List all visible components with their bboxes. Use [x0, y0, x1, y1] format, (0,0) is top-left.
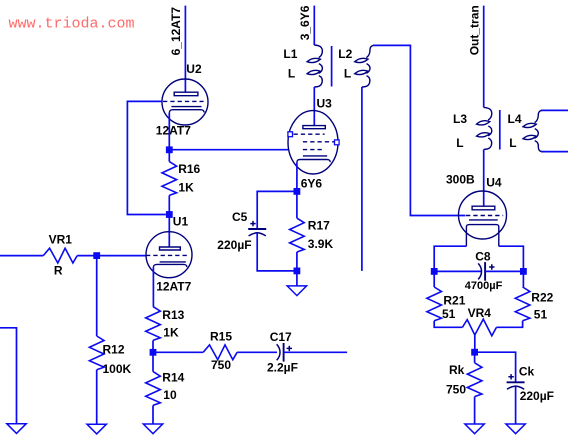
- wire Ck to ground: [515, 386, 517, 424]
- ground (below R14): [143, 424, 162, 434]
- svg-text:C5: C5: [232, 210, 248, 224]
- tube U3 control grid (dashed): [303, 149, 325, 151]
- wire node B to U1 plate: [168, 215, 170, 248]
- svg-text:L4: L4: [508, 112, 522, 126]
- tube U2 grid (dashed): [163, 100, 204, 102]
- svg-text:L: L: [344, 66, 351, 80]
- wire U2 grid to node B (U1 plate): [127, 101, 165, 214]
- svg-text:C8: C8: [475, 250, 491, 264]
- svg-text:L3: L3: [453, 112, 467, 126]
- text www.trioda.com watermark: [9, 15, 135, 32]
- wire C5 to node F: [257, 233, 297, 271]
- svg-text:4700µF: 4700µF: [465, 280, 503, 292]
- capacitor Ck: [507, 382, 525, 389]
- svg-text:L: L: [509, 136, 516, 150]
- tube U3 pin square left: [288, 132, 293, 137]
- node F junction (R17 / C5 / L2 return / ground): [294, 268, 301, 275]
- resistor R16: [162, 162, 177, 196]
- svg-text:220µF: 220µF: [217, 238, 251, 252]
- tube U3 plate: [303, 126, 325, 129]
- label 2.2uF (C17): [267, 361, 298, 375]
- svg-text:R: R: [54, 264, 63, 278]
- wire U2 cathode to node A: [168, 113, 170, 150]
- svg-text:10: 10: [163, 388, 177, 402]
- wire L4 bottom to output: [541, 151, 568, 153]
- wire net 6_12AT7 to U2 plate: [184, 6, 186, 93]
- svg-text:VR4: VR4: [468, 306, 492, 320]
- label U2: [186, 62, 202, 76]
- tube U4 filament: [466, 220, 498, 246]
- wire R13 to node D: [152, 340, 154, 352]
- label 220uF (C5): [217, 238, 251, 252]
- inductor L1: [307, 45, 322, 87]
- svg-text:51: 51: [442, 307, 456, 321]
- svg-text:6Y6: 6Y6: [301, 176, 323, 190]
- capacitor C17: [277, 343, 284, 362]
- wire R12 to ground: [96, 370, 98, 424]
- label L (L2): [344, 66, 351, 80]
- net label Out_tran: [467, 5, 481, 55]
- svg-text:U3: U3: [317, 96, 333, 110]
- svg-text:300B: 300B: [446, 173, 475, 187]
- svg-text:L: L: [288, 66, 295, 80]
- resistor R22: [515, 287, 530, 321]
- resistor Rk: [467, 363, 482, 397]
- wire U4 filament right to node H: [499, 246, 524, 271]
- plus mark (C8): [489, 264, 494, 269]
- label R14: [162, 370, 184, 384]
- svg-text:U2: U2: [186, 62, 202, 76]
- node C junction (VR1 / U1 grid / R12): [93, 252, 100, 259]
- wire node D to R14: [152, 352, 154, 371]
- wire R14 to ground: [152, 405, 154, 424]
- wire node C to R12: [96, 256, 98, 336]
- ground (input rail): [7, 424, 26, 434]
- inductor L2: [355, 45, 374, 87]
- label R13: [162, 308, 184, 322]
- svg-text:R15: R15: [210, 329, 232, 343]
- label Rk: [449, 363, 465, 377]
- wire R15 to C17: [237, 351, 277, 353]
- transformer core L3-L4: [499, 110, 501, 150]
- svg-text:2.2µF: 2.2µF: [267, 361, 298, 375]
- tube U2 cathode: [169, 107, 204, 113]
- tube U1 envelope: [146, 232, 192, 278]
- svg-text:R16: R16: [178, 162, 200, 176]
- inductor L4: [523, 110, 542, 151]
- svg-text:750: 750: [211, 358, 231, 372]
- label L1: [283, 47, 297, 61]
- wire node G to R21: [433, 271, 435, 287]
- wire VR4 wiper to node I: [474, 335, 476, 352]
- svg-text:R13: R13: [162, 308, 184, 322]
- svg-text:220µF: 220µF: [520, 389, 554, 403]
- ground (node F): [287, 286, 306, 296]
- label 3.9K (R17): [308, 237, 334, 251]
- svg-text:R17: R17: [308, 218, 330, 232]
- svg-text:Ck: Ck: [519, 365, 535, 379]
- wire node E to C5: [257, 191, 297, 229]
- wire net Out_tran to L3: [483, 6, 485, 108]
- tube U4 grid (dashed): [466, 215, 503, 217]
- label R21: [443, 294, 465, 308]
- label 12AT7 (U1): [156, 279, 191, 293]
- svg-text:L: L: [456, 136, 463, 150]
- wire node I to Rk: [474, 352, 476, 363]
- label U4: [486, 175, 502, 189]
- svg-text:12AT7: 12AT7: [156, 279, 191, 293]
- tube U3 screen grid (dashed): [294, 133, 325, 135]
- resistor R13: [146, 307, 161, 341]
- wire U1 cathode to R13: [152, 267, 154, 307]
- ground (below Ck): [506, 424, 525, 434]
- svg-text:www.trioda.com: www.trioda.com: [9, 15, 135, 32]
- tube U1 cathode: [153, 262, 187, 267]
- potentiometer VR1: [43, 248, 77, 263]
- wire L1 bottom to U3 plate: [313, 87, 315, 126]
- label 750 (Rk): [446, 382, 466, 396]
- label C8: [475, 250, 491, 264]
- wire R21 to VR4: [434, 321, 462, 328]
- resistor R12: [89, 336, 104, 370]
- wire net 3_6Y6 to L1: [313, 6, 315, 46]
- capacitor C8: [478, 262, 485, 281]
- node D junction (R13 / R14 / R15): [150, 349, 157, 356]
- plus mark (C17): [287, 346, 292, 351]
- potentiometer VR4 (hum balance): [462, 319, 496, 336]
- label 51 (R22): [534, 307, 548, 321]
- svg-text:U4: U4: [486, 175, 502, 189]
- label L4: [508, 112, 522, 126]
- wire L2 bottom to node F: [361, 87, 363, 271]
- svg-text:C17: C17: [270, 330, 292, 344]
- label R12: [103, 342, 125, 356]
- wire R17 to node F: [296, 252, 298, 271]
- svg-text:R14: R14: [162, 370, 184, 384]
- label 12AT7 (U2): [156, 123, 191, 137]
- wire C17 output stub: [284, 351, 348, 353]
- svg-text:Rk: Rk: [449, 363, 465, 377]
- wire input to VR1: [0, 255, 43, 257]
- label L3: [453, 112, 467, 126]
- wire node I to Ck: [475, 352, 516, 382]
- plus mark (C5): [250, 221, 255, 226]
- tube U3 cathode: [297, 156, 330, 162]
- tube U2 plate: [174, 92, 198, 96]
- wire U3 cathode to node E: [296, 162, 298, 191]
- wire node A to U3 grid: [169, 149, 288, 151]
- svg-text:VR1: VR1: [49, 232, 73, 246]
- wire VR1 to node C and U1 grid: [77, 255, 146, 257]
- wire R22 to VR4: [497, 321, 523, 328]
- wire L4 top to output: [541, 109, 568, 111]
- resistor R21: [427, 287, 442, 321]
- svg-text:1K: 1K: [178, 180, 194, 194]
- net label 3_6Y6: [298, 5, 312, 40]
- label R16: [178, 162, 200, 176]
- label 4700uF (C8): [465, 280, 503, 292]
- label R15: [210, 329, 232, 343]
- tube U3 envelope: [288, 111, 338, 174]
- label 220uF (Ck): [520, 389, 554, 403]
- wire Rk to ground: [474, 397, 476, 424]
- node E junction (U3 cathode / R17 / C5): [294, 188, 301, 195]
- svg-text:51: 51: [534, 307, 548, 321]
- label 10 (R14): [163, 388, 177, 402]
- resistor R15: [203, 345, 237, 360]
- label R (VR1): [54, 264, 63, 278]
- label 750 (R15): [211, 358, 231, 372]
- net label 6_12AT7: [169, 7, 183, 56]
- label 100K (R12): [103, 362, 132, 376]
- svg-text:R22: R22: [531, 290, 553, 304]
- ground (below R12): [87, 424, 106, 434]
- node G junction (filament- / C8 / R21): [431, 268, 438, 275]
- wire U4 filament left to node G: [434, 246, 466, 271]
- tube U4 plate: [472, 206, 495, 210]
- svg-text:100K: 100K: [103, 362, 132, 376]
- wire node F to ground: [296, 271, 298, 286]
- svg-text:U1: U1: [173, 215, 189, 229]
- label U3: [317, 96, 333, 110]
- resistor R14: [146, 372, 161, 406]
- transformer core L1-L2: [331, 46, 333, 87]
- node B junction (R16 / U1 plate / U2 grid): [166, 211, 173, 218]
- label 51 (R21): [442, 307, 456, 321]
- wire node G to C8: [434, 270, 481, 272]
- label L (L4): [509, 136, 516, 150]
- wire node D to R15: [153, 351, 203, 353]
- label L (L1): [288, 66, 295, 80]
- node A junction (U2 cathode / R16 / to U3 grid): [166, 146, 173, 153]
- label 6Y6 (U3): [301, 176, 323, 190]
- svg-text:3.9K: 3.9K: [308, 237, 334, 251]
- wire R16 to node B: [168, 195, 170, 214]
- node H junction (filament+ / C8 / R22): [520, 268, 527, 275]
- label L (L3): [456, 136, 463, 150]
- svg-text:Out_tran: Out_tran: [467, 5, 481, 55]
- capacitor C5: [248, 229, 266, 236]
- wire L3 bottom to U4 plate: [483, 149, 485, 206]
- label 1K (R13): [163, 325, 179, 339]
- node I junction (VR4 wiper / Rk / Ck): [471, 349, 478, 356]
- ground (below Rk): [465, 424, 484, 434]
- label R17: [308, 218, 330, 232]
- label R22: [531, 290, 553, 304]
- label VR4: [468, 306, 492, 320]
- svg-text:R12: R12: [103, 342, 125, 356]
- tube U3 pin square right: [335, 140, 340, 145]
- tube U2 envelope: [162, 79, 208, 125]
- svg-text:L2: L2: [338, 47, 352, 61]
- label L2: [338, 47, 352, 61]
- resistor R17: [290, 218, 305, 252]
- wire node A to R16: [168, 150, 170, 162]
- tube U1 plate: [160, 247, 181, 250]
- svg-text:750: 750: [446, 382, 466, 396]
- wire C8 to node H: [485, 270, 523, 272]
- wire input lower rail: [0, 328, 17, 424]
- tube U4 envelope: [459, 191, 507, 239]
- svg-text:6_12AT7: 6_12AT7: [169, 7, 183, 56]
- label C17: [270, 330, 292, 344]
- label U1: [173, 215, 189, 229]
- svg-text:1K: 1K: [163, 325, 179, 339]
- label 1K (R16): [178, 180, 194, 194]
- svg-text:L1: L1: [283, 47, 297, 61]
- inductor L3: [477, 107, 492, 149]
- svg-text:3_6Y6: 3_6Y6: [298, 5, 312, 40]
- svg-text:12AT7: 12AT7: [156, 123, 191, 137]
- label VR1: [49, 232, 73, 246]
- wire L2 top to U4 grid: [373, 45, 466, 215]
- plus mark (Ck): [508, 374, 513, 379]
- tube U3 grid2 (dashed): [303, 141, 335, 143]
- label 300B (U4): [446, 173, 475, 187]
- wire node H to R22: [522, 271, 524, 287]
- label Ck: [519, 365, 535, 379]
- label C5: [232, 210, 248, 224]
- tube U1 grid (dashed): [146, 254, 187, 256]
- resistor R17 upper wire: [296, 191, 298, 218]
- svg-text:R21: R21: [443, 294, 465, 308]
